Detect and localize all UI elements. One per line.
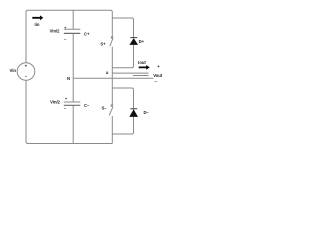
svg-text:C−: C− bbox=[84, 103, 90, 108]
svg-text:Iin: Iin bbox=[35, 22, 40, 27]
svg-text:Vin/2: Vin/2 bbox=[50, 100, 61, 105]
svg-text:+: + bbox=[157, 64, 160, 69]
svg-text:N: N bbox=[67, 76, 70, 81]
svg-text:Vout: Vout bbox=[153, 73, 163, 78]
svg-text:+: + bbox=[25, 64, 28, 69]
svg-text:Iout: Iout bbox=[138, 60, 146, 65]
svg-text:C+: C+ bbox=[84, 32, 90, 37]
svg-text:S−: S− bbox=[102, 106, 108, 111]
svg-text:a: a bbox=[106, 70, 109, 75]
svg-text:−: − bbox=[64, 105, 67, 110]
svg-text:−: − bbox=[64, 36, 67, 41]
svg-text:Vin: Vin bbox=[10, 68, 17, 73]
svg-text:+: + bbox=[65, 96, 68, 101]
svg-text:−: − bbox=[154, 79, 157, 84]
svg-text:S+: S+ bbox=[100, 42, 106, 47]
svg-text:D−: D− bbox=[144, 110, 150, 115]
svg-text:−: − bbox=[25, 74, 28, 79]
svg-text:Vin/2: Vin/2 bbox=[50, 29, 61, 34]
svg-text:D+: D+ bbox=[139, 39, 145, 44]
